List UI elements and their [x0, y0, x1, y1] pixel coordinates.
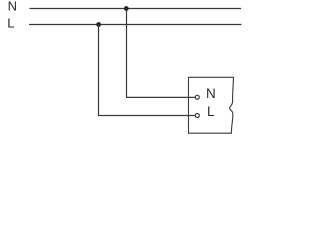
svg-text:N: N — [206, 86, 216, 101]
device box outline — [189, 77, 234, 133]
wire L drop — [99, 25, 196, 116]
svg-text:N: N — [8, 0, 17, 14]
wire N drop — [127, 9, 196, 98]
wire L bus — [29, 24, 242, 26]
svg-text:L: L — [207, 104, 215, 119]
junction L — [96, 22, 101, 27]
svg-text:L: L — [7, 16, 14, 31]
terminal N — [195, 95, 199, 99]
terminal L — [195, 114, 199, 118]
junction N — [124, 6, 129, 11]
wire N bus — [30, 8, 242, 10]
